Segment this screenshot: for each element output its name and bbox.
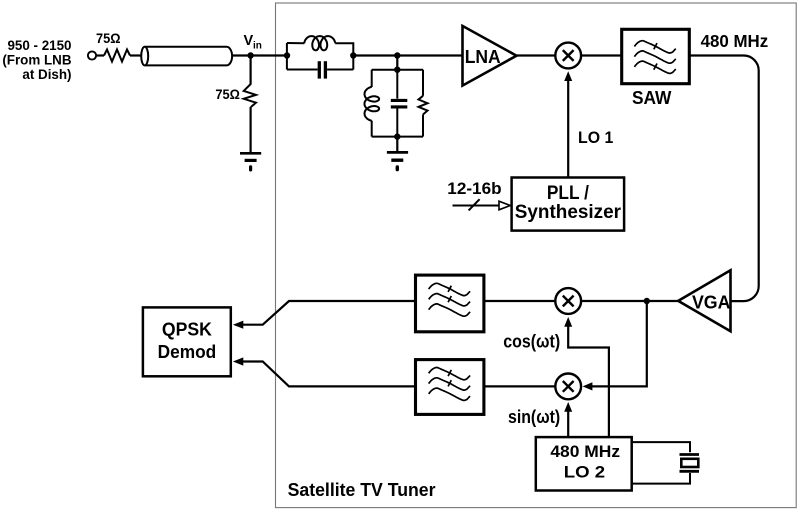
svg-text:Satellite TV Tuner: Satellite TV Tuner <box>288 479 436 500</box>
PLL / Synthesizer box <box>512 178 624 231</box>
node junction at LC1 left <box>284 52 290 58</box>
wire bottom <box>632 473 690 484</box>
svg-text:Synthesizer: Synthesizer <box>515 202 622 223</box>
svg-text:SAW: SAW <box>632 88 672 108</box>
wire <box>232 54 288 56</box>
wire <box>396 109 398 137</box>
input terminal <box>88 51 96 59</box>
svg-text:VGA: VGA <box>692 293 731 313</box>
svg-text:sin(ωt): sin(ωt) <box>508 407 560 427</box>
wire <box>396 56 398 70</box>
mixer M1 <box>555 43 581 69</box>
capacitor C2 <box>391 99 408 102</box>
middle leg wire <box>396 70 398 99</box>
resistor R1 75ohm <box>104 50 130 62</box>
wire <box>96 54 104 56</box>
inductor L1 <box>304 36 335 50</box>
bus wire 12-16b <box>453 205 499 207</box>
svg-text:at Dish): at Dish) <box>22 67 71 82</box>
svg-text:in: in <box>253 41 262 52</box>
wire <box>335 43 353 69</box>
top rail <box>372 69 423 71</box>
filter F2 box <box>416 360 484 415</box>
resistor R3 <box>419 96 428 115</box>
top plate <box>680 453 700 456</box>
filter F1 box <box>416 275 484 332</box>
filter F1 waves <box>429 283 470 316</box>
wire SAW to VGA with rounded corners <box>689 56 758 302</box>
wire main to LNA <box>353 54 462 56</box>
ground G1 <box>240 153 261 170</box>
node junction <box>644 298 650 304</box>
crystal body <box>681 459 698 467</box>
QPSK Demod box <box>143 307 231 376</box>
mixer M3 <box>555 374 581 400</box>
svg-text:480 MHz: 480 MHz <box>701 31 769 51</box>
wire <box>396 137 398 152</box>
wire filter F1 to QPSK <box>243 301 416 325</box>
cos LO wire and arrow <box>568 326 609 437</box>
wire bottom branch <box>287 69 318 71</box>
node <box>394 133 400 139</box>
SAW filter waves <box>634 41 675 74</box>
tuner enclosure box <box>276 3 797 508</box>
svg-text:cos(ωt): cos(ωt) <box>503 332 560 352</box>
wire <box>130 54 141 56</box>
LO1 wire and arrow <box>567 80 569 178</box>
amplifier LNA <box>463 26 517 86</box>
wire top branch <box>287 42 305 44</box>
node <box>394 67 400 73</box>
svg-text:LO 1: LO 1 <box>578 128 613 147</box>
svg-text:(From LNB: (From LNB <box>2 52 72 67</box>
wire <box>581 54 622 56</box>
node junction at LC1 right <box>350 52 356 58</box>
wire <box>250 107 252 152</box>
wire mixer M3 to filter F2 <box>484 385 555 387</box>
SAW filter box <box>622 29 690 83</box>
left riser <box>286 43 288 70</box>
open arrowhead <box>499 201 510 210</box>
right leg <box>422 70 424 96</box>
svg-text:QPSK: QPSK <box>162 320 212 340</box>
wire <box>250 56 252 85</box>
svg-text:480 MHz: 480 MHz <box>550 442 620 461</box>
left leg <box>371 70 373 87</box>
shunt tank network <box>365 70 428 137</box>
node junction shunt tank <box>394 52 400 58</box>
svg-text:LO 2: LO 2 <box>564 462 605 481</box>
filter F2 waves <box>429 368 470 401</box>
svg-text:75Ω: 75Ω <box>96 30 121 46</box>
LC trap network <box>287 36 353 79</box>
wire <box>422 115 424 137</box>
amplifier VGA <box>678 270 730 331</box>
wire junction down to mixer M3 <box>592 301 647 386</box>
wire filter F2 to QPSK <box>243 362 416 387</box>
svg-text:PLL /: PLL / <box>547 183 590 204</box>
LO2 box <box>536 437 632 490</box>
wire <box>327 69 353 71</box>
bottom plate <box>680 470 700 473</box>
node Vin <box>247 52 253 58</box>
svg-text:LNA: LNA <box>465 47 501 67</box>
wire VGA to mixer M2 <box>581 300 678 302</box>
wire <box>371 121 373 137</box>
capacitor C1 <box>318 61 321 78</box>
crystal X1 <box>632 442 699 484</box>
svg-text:12-16b: 12-16b <box>447 179 501 198</box>
svg-text:950 - 2150: 950 - 2150 <box>7 38 71 53</box>
svg-text:V: V <box>244 33 254 49</box>
sin LO wire and arrow <box>567 411 569 437</box>
bus slash <box>469 199 480 210</box>
wire mixer M2 to filter F1 <box>484 300 555 302</box>
wire top <box>632 442 690 452</box>
wire <box>517 54 556 56</box>
svg-text:Demod: Demod <box>158 342 217 362</box>
ground G2 <box>387 152 408 169</box>
mixer M2 <box>555 288 581 314</box>
svg-text:75Ω: 75Ω <box>215 86 240 102</box>
resistor R2 75ohm shunt <box>244 84 256 107</box>
bottom rail <box>372 136 423 138</box>
coax transmission line <box>141 47 232 66</box>
inductor L2 <box>365 87 380 121</box>
